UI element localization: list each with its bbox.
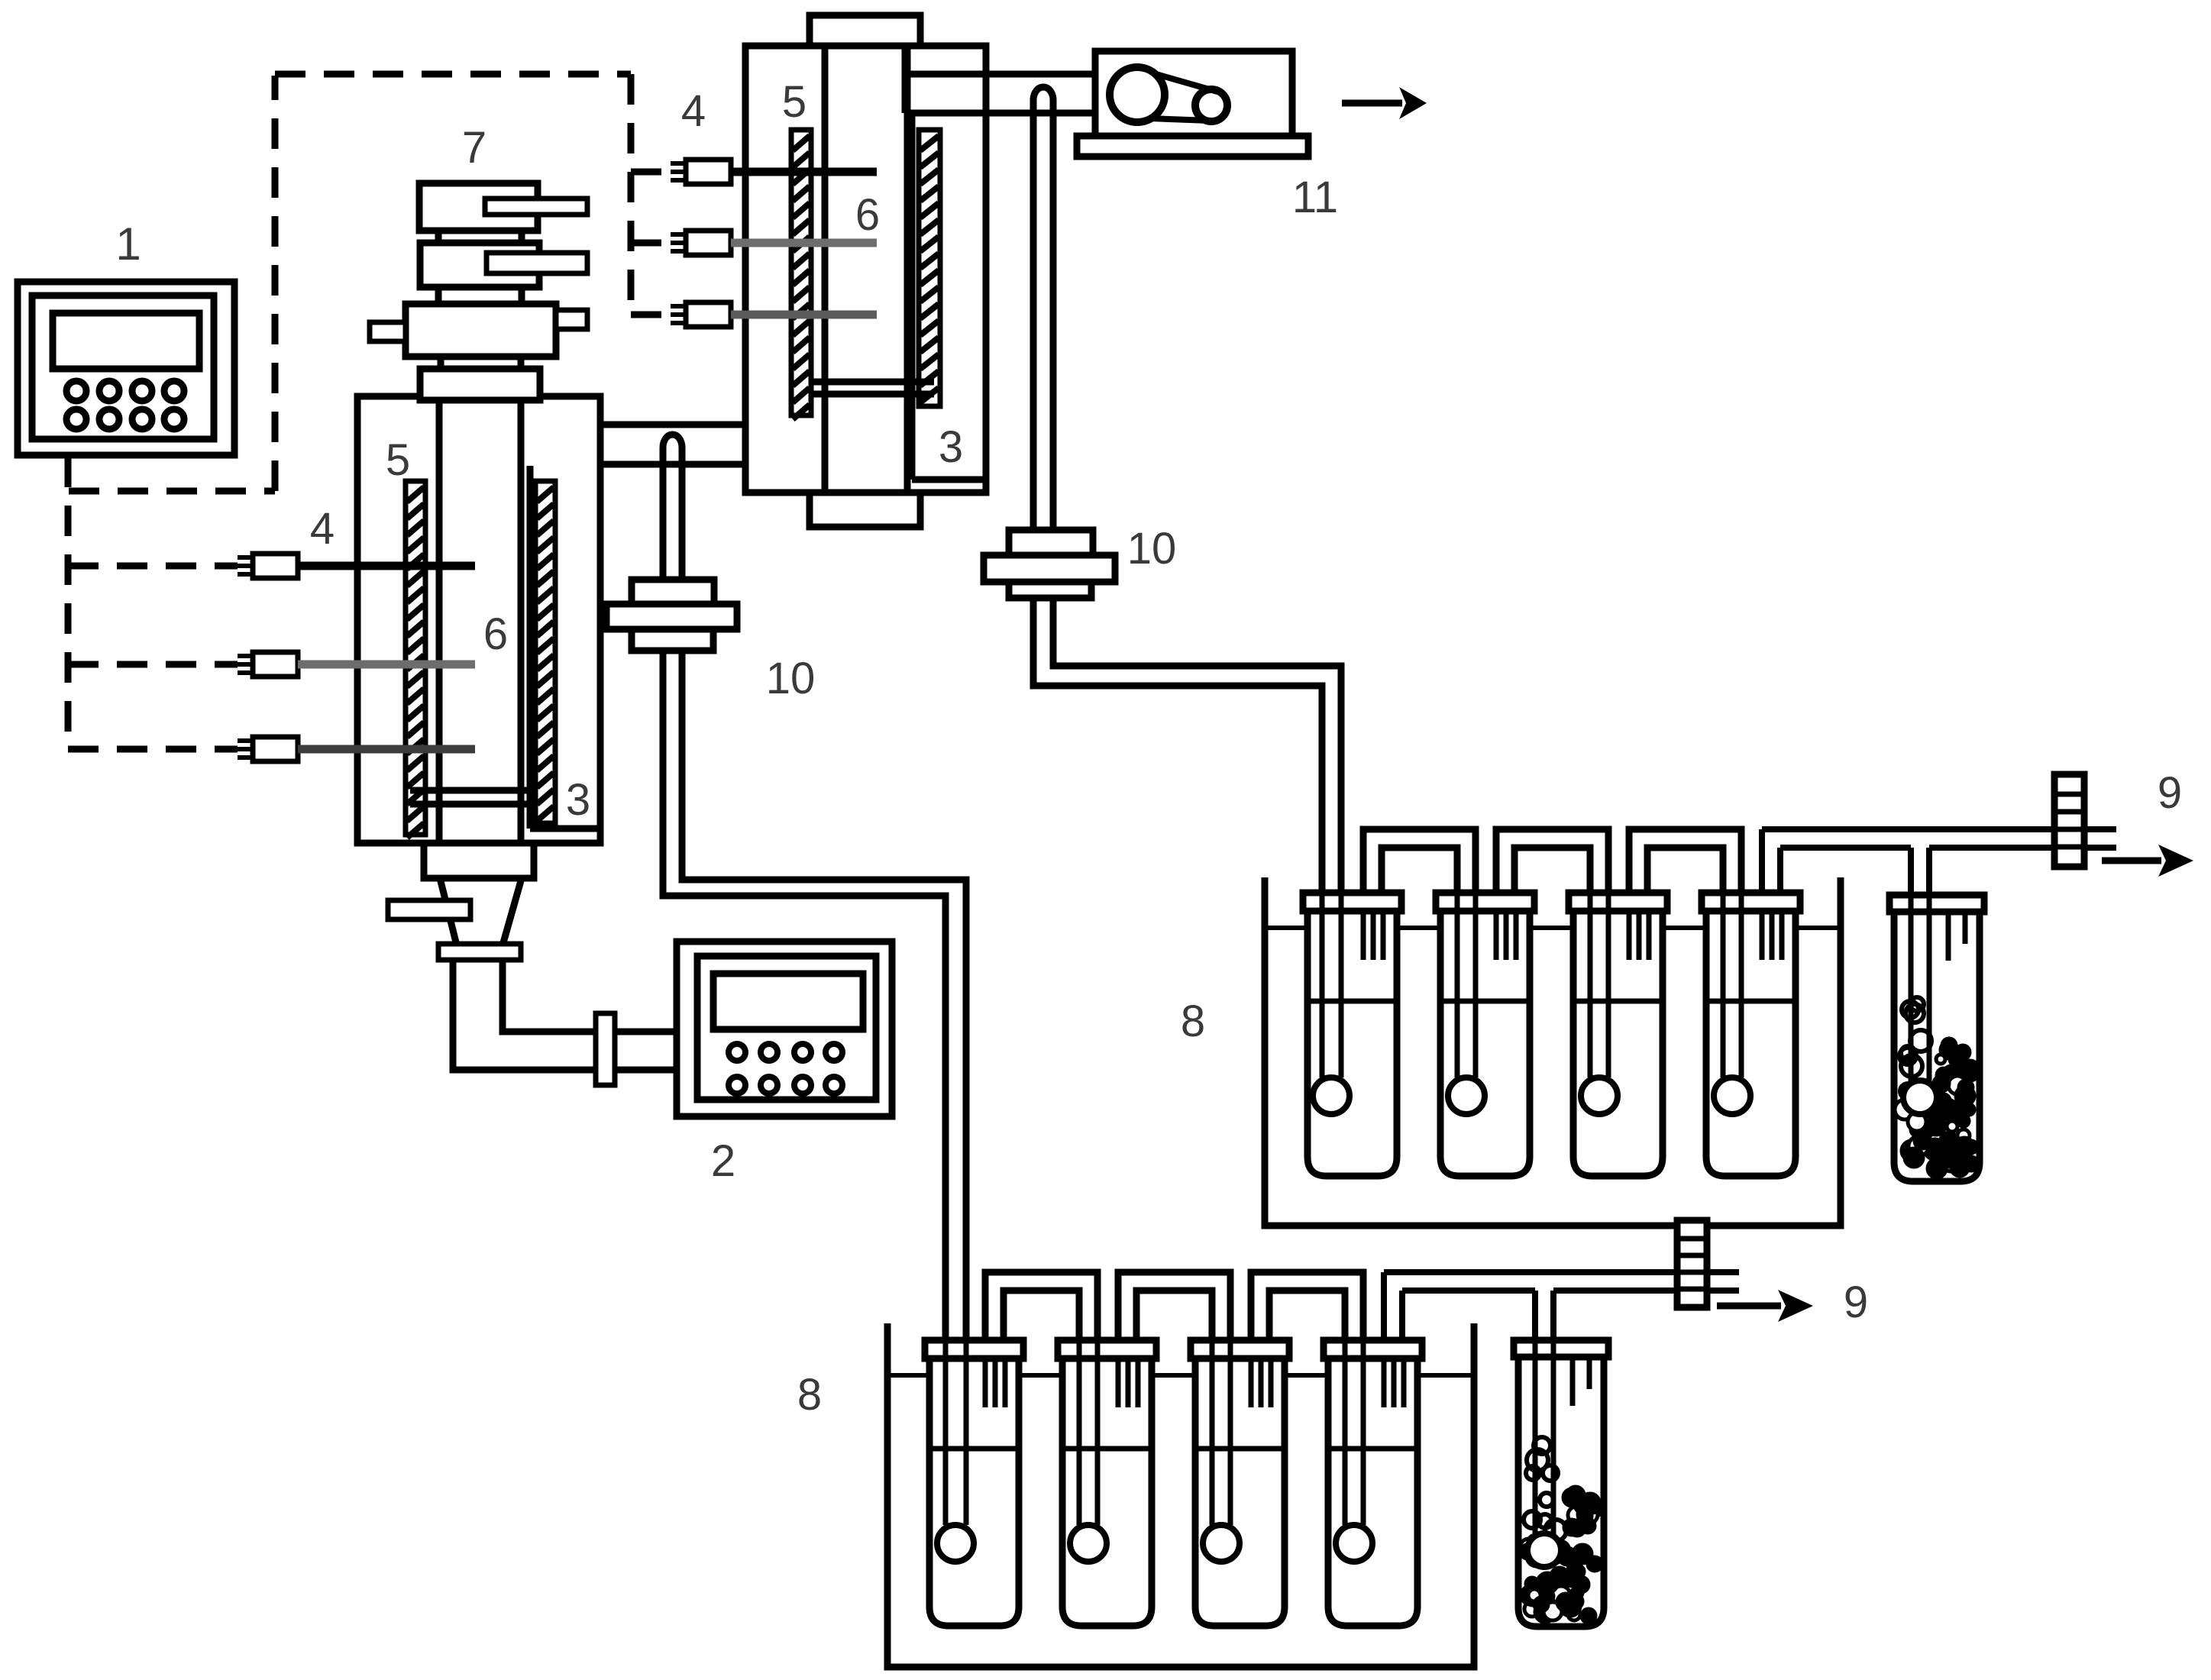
pump pulley small [1195,89,1227,121]
controller 2 button r1c4 [826,1044,842,1061]
mid reactor tube left wall [822,46,829,493]
svg-text:6: 6 [483,609,508,659]
stirrer connector right upper [519,231,525,243]
mid reactor internal duct step [806,464,813,491]
top bottle 3 outlet tube line 3 [1647,911,1652,960]
water bath tray bottom [887,1323,1474,1667]
top impinger bottle 4 cap [1702,893,1800,911]
left furnace bottom collar [424,843,534,878]
controller 2 button r1c3 [794,1044,811,1061]
top bottle 2 liquid level [1440,999,1530,1004]
bottom bottle 3 liquid level [1195,1446,1285,1452]
bottom bottle 4 liquid level [1328,1446,1417,1452]
svg-text:4: 4 [310,504,335,554]
dashed stub to TC row1 (mid reactor) [631,169,671,176]
bottom train U-bridge 3-4 inner [1269,1291,1345,1343]
top bottle 4 outlet tube line 3 [1779,911,1785,960]
svg-text:4: 4 [681,86,706,136]
bottom gel bottle outlet stub B [1587,1357,1592,1389]
stirrer motor right tab [556,310,587,329]
mid reactor tube right wall [904,46,911,493]
bottom impinger bottle 4 body [1328,1359,1417,1626]
mid heater element 5 (left strip) [791,130,811,415]
top train U-bridge 3-4 outer [1629,829,1741,896]
thermocouple 4 left row3 [238,738,253,743]
bottom train bottle5 inlet branch wall B [1550,1291,1556,1346]
mid furnace outlet notch vertical [902,46,909,113]
thermocouple 4 mid row1 [671,161,686,166]
top bottle 1 outlet tube line 1 [1361,911,1366,960]
dashed control-loop box left side [272,76,279,491]
cone right edge [503,878,522,945]
temperature controller 1 outer case [18,282,234,455]
svg-text:11: 11 [1292,173,1338,222]
bottom bottle 1 outlet tube line 2 [993,1359,998,1407]
top bottle 4 liquid level [1706,999,1796,1004]
controller 2 display [713,974,863,1029]
svg-text:5: 5 [782,77,806,127]
controller 1 button r2c3 [132,409,152,429]
left reactor tube left wall [436,400,443,843]
stirrer motor body [406,304,556,357]
mid retort 3 bottom [912,477,986,483]
stopcock 9 top rung 3 [2054,827,2084,832]
top impinger bottle 3 body [1573,911,1663,1176]
stirrer connector left lower [435,287,442,304]
left probe dome [663,435,682,466]
bottom train U-bridge 1-2 inner [1004,1291,1079,1343]
top bottle 2 outlet tube line 3 [1514,911,1519,960]
controller 1 inner panel [32,296,214,439]
top train bottle5 inlet branch wall B [1926,848,1932,898]
pump belt top [1153,73,1217,92]
flange 10 right wide plate [984,555,1115,582]
top bottle 2 dip tube wall A [1455,894,1460,1077]
sampling pipe wall A (left reactor to bottom train) [663,461,945,1342]
thermocouple 4 mid row2 [671,232,686,237]
sampling pipe wall B (mid reactor to top train) [1053,113,1341,895]
top train outlet line outer [1759,829,1765,893]
bottom gel bottle body [1518,1357,1604,1627]
bottom train bottle5 inlet branch wall A [1532,1291,1538,1346]
stopcock 9 bottom rung 1 [1677,1236,1707,1242]
stirrer motor left tab [370,322,406,341]
thermocouple 4 left row2 [238,654,253,658]
flange 10 left lower plate [632,629,713,651]
bottom bottle 4 dip tube wall A [1343,1342,1348,1525]
stirrer lower side bar [486,253,587,273]
top train U-bridge 2-3 outer [1496,829,1608,896]
pump duct bottom wall [905,110,1095,117]
controller 1 button r2c2 [99,409,119,429]
bottom train outlet line inner b [1553,1287,1739,1294]
pump pulley large [1110,67,1165,122]
top bottle 3 liquid level [1573,999,1663,1004]
top bottle 2 outlet tube line 2 [1504,911,1509,960]
bottom impinger bottle 4 cap [1324,1340,1422,1359]
top gel bottle beads [1906,1004,1924,1023]
sampling pipe wall A (mid reactor to top train) [1033,113,1322,895]
top impinger bottle 2 body [1440,911,1530,1176]
duct left reactor to mid reactor top wall [521,422,743,428]
bottom bottle 1 dip tube wall A [943,1342,949,1525]
top impinger bottle 3 cap [1569,893,1667,911]
char pipe flange bar [596,1013,615,1085]
bottom bottle 3 outlet tube line 1 [1249,1359,1254,1407]
stirrer top side bar [485,199,587,215]
dashed control-loop box right side [628,74,635,315]
svg-text:6: 6 [855,190,880,240]
left furnace body [357,396,600,843]
top train U-bridge 1-2 inner [1382,848,1457,896]
bottom gel bottle dip tube wall A [1533,1342,1538,1545]
controller 1 button r1c4 [164,381,184,401]
controller 2 button r2c1 [729,1077,745,1094]
pump outlet arrow [1342,100,1402,107]
svg-text:1: 1 [115,218,141,270]
sampling pipe wall B (left reactor to bottom train) [682,461,966,1342]
bottom gel bottle outlet stub A [1570,1357,1576,1406]
bottom bottle 1 liquid level [929,1446,1019,1452]
top bottle 4 bubbler ball [1714,1077,1750,1114]
top bottle 2 dip tube wall B [1473,894,1479,1077]
dashed vertical from controller 1 [65,457,72,749]
top gel bottle outlet stub A [1946,912,1951,961]
dashed control-loop box top side [275,71,631,78]
stirrer neck right wall [518,357,525,369]
stopcock 9 top rung 4 [2054,845,2084,850]
bottom bottle 2 outlet tube line 1 [1116,1359,1121,1407]
pump base plate [1077,136,1308,157]
top train outlet line inner b [1929,845,2116,851]
controller 1 button r2c1 [66,409,86,429]
dashed stub to TC row3 (left reactor) [68,746,238,753]
bottom bottle 3 dip tube wall B [1228,1342,1233,1525]
bottom bottle 3 outlet tube line 3 [1269,1359,1274,1407]
svg-text:10: 10 [766,654,816,703]
mid furnace bottom cap [810,493,920,527]
bottom train outlet line outer [1381,1272,1387,1340]
svg-text:8: 8 [797,1370,822,1420]
flange 10 left wide plate [606,604,737,629]
controller 1 button r1c1 [66,381,86,401]
svg-text:9: 9 [2158,768,2182,818]
controller 2 button r1c1 [729,1044,745,1061]
bottom bottle 3 bubbler ball [1203,1525,1240,1562]
left heater element (right strip) [535,481,555,823]
top bottle 1 outlet tube line 2 [1371,911,1376,960]
top bottle 1 liquid level [1308,999,1397,1004]
char pipe wall B to controller 2 [503,960,677,1032]
stopcock valve 9 top body [2054,774,2084,867]
top train U-bridge 1-2 outer [1363,829,1476,896]
slide valve bar [388,900,470,919]
bottom bottle 2 bubbler ball [1070,1525,1107,1562]
controller 2 button r1c2 [761,1044,777,1061]
mid retort 3 inner wall [909,113,916,480]
stirrer neck left wall [438,357,444,369]
top bottle 4 outlet tube line 2 [1770,911,1775,960]
stirrer connector left upper [435,231,442,243]
left retort 3 inner wall [527,466,534,829]
controller 2 inner panel [697,956,876,1100]
bottom bottle 4 dip tube wall B [1361,1342,1366,1525]
pump duct top wall [905,71,1095,78]
top bottle 2 bubbler ball [1448,1077,1485,1114]
svg-text:8: 8 [1181,997,1205,1046]
bottom train U-bridge 1-2 outer [985,1272,1097,1343]
flange 10 right upper plate [1009,530,1093,555]
top gel bottle cap [1889,895,1984,912]
stopcock valve 9 bottom body [1677,1220,1707,1307]
top bottle 4 outlet tube line 1 [1760,911,1765,960]
svg-text:2: 2 [711,1136,735,1186]
dashed bottom edge from controller 1 [69,488,275,495]
svg-text:3: 3 [939,422,963,472]
flange 10 left upper plate [632,580,714,604]
top train outlet line inner a [1777,848,1783,893]
water level line top [1265,926,1841,930]
char pipe wall A to controller 2 [453,960,677,1070]
stirrer slip-ring block top [419,183,538,231]
bottom bottle 2 dip tube wall A [1077,1342,1082,1525]
controller 1 button r1c2 [99,381,119,401]
top bottle 1 bubbler ball [1313,1077,1350,1114]
top bottle 3 dip tube wall B [1606,894,1611,1077]
top impinger bottle 1 cap [1303,893,1401,911]
controller 1 button r1c3 [132,381,152,401]
bottom bottle 3 dip tube wall A [1210,1342,1215,1525]
top bottle 1 dip tube wall A [1320,894,1325,1077]
bottom gel bottle cap [1514,1340,1608,1357]
svg-text:10: 10 [1127,524,1177,573]
bottom impinger bottle 2 body [1062,1359,1152,1626]
svg-text:7: 7 [462,123,486,173]
right probe dome [1033,87,1053,118]
bottom train outlet line inner a [1399,1291,1405,1340]
svg-text:5: 5 [386,435,410,485]
controller 2 outer case [677,942,892,1116]
bottom bottle 4 outlet tube line 2 [1392,1359,1397,1407]
top train U-bridge 2-3 inner [1514,848,1590,896]
mid furnace body [745,46,986,493]
bottom bottle 1 bubbler ball [937,1525,974,1562]
bottom bottle 4 bubbler ball [1336,1525,1372,1562]
bottom bottle 2 liquid level [1062,1446,1152,1452]
bottom bottle 4 outlet tube line 1 [1382,1359,1387,1407]
controller 2 button r2c2 [761,1077,777,1094]
mid reactor grate upper line [811,379,934,386]
top train bottle5 inlet branch wall A [1908,848,1914,898]
top gel bottle outlet stub B [1963,912,1968,944]
bottom gel bottle beads [1534,1437,1550,1454]
bottom bottle 2 outlet tube line 3 [1136,1359,1141,1407]
bottom impinger bottle 2 cap [1058,1340,1156,1359]
top bottle 4 dip tube wall B [1739,894,1744,1077]
thermocouple 4 left row1 [238,555,253,560]
top bottle 1 dip tube wall B [1339,894,1344,1077]
bottom bottle 2 outlet tube line 2 [1126,1359,1131,1407]
bottom bottle 2 dip tube wall B [1095,1342,1101,1525]
duct left reactor to mid reactor bottom wall [521,461,743,468]
stopcock 9 top rung 1 [2054,792,2084,797]
flange 10 right lower plate [1009,582,1091,598]
bottom train U-bridge 3-4 outer [1251,1272,1363,1343]
top gel bottle body [1894,912,1980,1181]
left heater element 5 (left strip) [406,481,425,835]
water level line bottom [887,1373,1474,1378]
top train U-bridge 3-4 inner [1647,848,1723,896]
stopcock 9 bottom rung 2 [1677,1253,1707,1258]
bottom bottle 1 outlet tube line 1 [983,1359,988,1407]
bottom impinger bottle 1 cap [925,1340,1023,1359]
top bottle 4 dip tube wall A [1721,894,1726,1077]
bottom train U-bridge 2-3 outer [1118,1272,1230,1343]
dashed stub to TC row2 (left reactor) [68,661,238,668]
controller 2 button r2c4 [826,1077,842,1094]
stirrer slip-ring block lower [420,243,539,287]
top bottle 3 bubbler ball [1581,1077,1618,1114]
stopcock 9 top rung 2 [2054,809,2084,815]
bottom gel bottle dip tube wall B [1551,1342,1556,1545]
svg-text:9: 9 [1844,1278,1868,1327]
bottom bottle 1 outlet tube line 3 [1003,1359,1008,1407]
top bottle 3 dip tube wall A [1588,894,1593,1077]
cone bottom flange bar [438,944,521,960]
cone left edge [440,878,457,945]
top impinger bottle 1 body [1308,911,1397,1176]
controller 1 display [53,313,199,369]
bottom impinger bottle 3 cap [1191,1340,1289,1359]
stirrer connector right lower [519,287,525,304]
stopcock 9 bottom rung 4 [1677,1287,1707,1292]
bottom train exit arrow [1717,1303,1781,1310]
left reactor grate upper line [410,787,537,794]
top impinger bottle 4 body [1706,911,1796,1176]
controller 1 button r2c4 [164,409,184,429]
svg-text:3: 3 [566,775,590,825]
left reactor grate lower line [410,801,537,808]
dashed stub to TC row1 (left reactor) [68,563,238,570]
left reactor tube right wall [518,400,525,843]
mid furnace top cap [810,15,920,46]
top gel bottle dip tube wall B [1927,897,1932,1100]
bottom impinger bottle 3 body [1195,1359,1285,1626]
stopcock 9 bottom rung 3 [1677,1270,1707,1275]
dashed stub to TC row3 (mid reactor) [631,312,671,318]
left furnace top collar [420,369,540,400]
mid heater element (right strip) [919,130,940,406]
bottom bottle 3 outlet tube line 2 [1259,1359,1264,1407]
top bottle 3 outlet tube line 2 [1637,911,1642,960]
bottom impinger bottle 1 body [929,1359,1019,1626]
mid reactor grate lower line [811,391,934,398]
pump belt bottom [1150,118,1210,121]
pump 11 housing [1095,51,1292,136]
top impinger bottle 2 cap [1436,893,1534,911]
top bottle 3 outlet tube line 1 [1627,911,1632,960]
top gel bottle dip tube wall A [1909,897,1914,1100]
left retort 3 bottom [530,825,600,832]
bottom bottle 4 outlet tube line 3 [1401,1359,1407,1407]
bottom bottle 1 dip tube wall B [964,1342,969,1525]
top bottle 1 outlet tube line 3 [1381,911,1386,960]
thermocouple 4 mid row3 [671,304,686,309]
top bottle 2 outlet tube line 1 [1494,911,1499,960]
controller 2 button r2c3 [794,1077,811,1094]
water bath tray top [1265,877,1841,1226]
bottom train U-bridge 2-3 inner [1136,1291,1212,1343]
top train exit arrow [2102,858,2161,864]
dashed stub to TC row2 (mid reactor) [631,240,671,247]
